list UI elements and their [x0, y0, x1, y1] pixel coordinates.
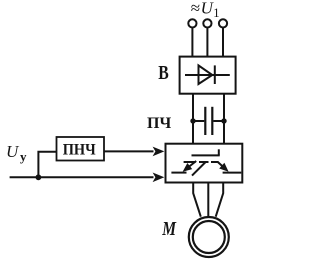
label B [158, 62, 169, 84]
emitter arrow right transistor [217, 162, 225, 169]
terminal circle 1 [188, 19, 196, 27]
junction dot right of capacitor [221, 118, 226, 123]
wire DC rail left [192, 94, 194, 144]
node supply label U1 [191, 0, 220, 20]
emitter lead right [223, 172, 242, 174]
collector top bar [192, 154, 220, 156]
svg-text:М: М [162, 218, 178, 240]
base bar left [184, 161, 196, 163]
svg-text:ПНЧ: ПНЧ [63, 142, 96, 159]
emitter lead left [171, 172, 186, 174]
wire motor phase middle [207, 183, 209, 218]
terminal circle 2 [203, 19, 211, 27]
svg-text:ПЧ: ПЧ [147, 115, 171, 132]
converter box PNCh [57, 137, 105, 161]
junction dot left of capacitor [190, 118, 195, 123]
label Uy [6, 142, 27, 164]
transistor pair symbol inside PCh [171, 149, 241, 175]
label M [162, 218, 178, 240]
label PCh [147, 115, 171, 132]
wire motor phase left [193, 183, 201, 217]
motor inner circle [193, 221, 225, 253]
diode VD [185, 65, 230, 84]
wire phase 1 to rectifier [191, 27, 193, 56]
wire DC rail right [223, 94, 225, 144]
base bar middle [199, 161, 209, 163]
wire PNCh to PCh with arrow [104, 150, 154, 152]
capacitor C [193, 107, 224, 135]
wire phase 2 to rectifier [206, 27, 208, 56]
wire branch up to PNCh [38, 152, 56, 178]
junction dot on input line [36, 174, 42, 180]
wire Uy input line [10, 176, 154, 178]
label PNCh [63, 142, 96, 159]
collector slant middle [192, 162, 206, 176]
wire phase 3 to rectifier [222, 27, 224, 56]
svg-text:В: В [158, 62, 169, 84]
terminal circle 3 [219, 19, 227, 27]
inverter box PCh [166, 144, 243, 183]
base bar right [211, 161, 219, 163]
rectifier box B [180, 57, 236, 94]
svg-text:U: U [6, 142, 20, 161]
emitter arrow left transistor [186, 161, 196, 169]
wire motor phase right [216, 183, 224, 217]
svg-text:у: у [20, 149, 27, 164]
motor outer circle [189, 217, 229, 257]
collector tick [218, 149, 220, 155]
